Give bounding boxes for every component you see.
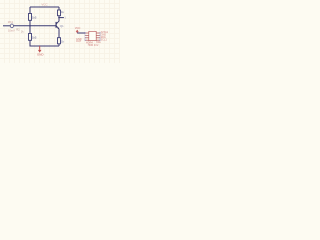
wire top rail	[30, 6, 59, 8]
pin 5 (left)	[85, 37, 88, 39]
pin 6 (right)	[96, 37, 99, 39]
wire R3 to collector with tap junction	[58, 16, 60, 21]
power port GND (arrow down)	[39, 46, 41, 50]
pin 3 (left)	[85, 34, 88, 36]
wire base net (left edge to Q1 base)	[3, 25, 10, 27]
pin 4 (right)	[96, 34, 99, 36]
wire R4 to bottom rail	[58, 44, 60, 46]
pin 8 (right)	[96, 39, 99, 41]
no-ERC crosses left pins	[84, 32, 86, 41]
sheet background	[0, 0, 120, 63]
resistor R3 (upper right box)	[58, 10, 61, 16]
svg-text:MK1: MK1	[8, 20, 14, 24]
resistor R4 (lower right box)	[58, 38, 61, 44]
wire collector tap stub	[59, 17, 64, 19]
junction collector tap	[58, 17, 60, 19]
svg-text:GND: GND	[37, 53, 43, 57]
junction base node	[29, 25, 31, 27]
wire emitter to R4	[58, 29, 60, 38]
wire R1 to junction to R2	[29, 20, 31, 33]
svg-text:Q1: Q1	[60, 24, 64, 28]
wire right vertical (rail to R3)	[58, 7, 60, 10]
svg-text:HDR 4X2: HDR 4X2	[88, 44, 99, 47]
svg-text:OUT: OUT	[76, 40, 82, 43]
svg-text:VCC: VCC	[75, 26, 81, 30]
pin 2 (right)	[96, 32, 99, 34]
wire R2 to bottom rail	[30, 40, 59, 46]
wire VCC to connector pin 1	[77, 32, 85, 34]
no-ERC crosses right pins	[99, 32, 101, 41]
pin 7 (left)	[85, 39, 88, 41]
wire circle to base	[14, 25, 56, 27]
grid	[0, 0, 120, 63]
svg-text:VCC: VCC	[41, 2, 48, 6]
source BT1 (circle on base wire)	[10, 24, 13, 28]
wire left vertical (rail to R1)	[29, 7, 31, 13]
resistor R1 (upper left box)	[29, 14, 32, 21]
svg-text:SCL1: SCL1	[101, 38, 108, 41]
connector J1 body	[89, 31, 96, 40]
svg-text:R2: R2	[16, 27, 20, 31]
resistor R2 (lower left box)	[29, 34, 32, 41]
pin 1 (left)	[85, 32, 88, 34]
transistor Q1 (NPN)	[56, 21, 59, 29]
svg-text:1k5: 1k5	[32, 35, 37, 39]
Q1 emitter arrow	[57, 27, 59, 29]
svg-text:X2A: X2A	[96, 41, 101, 44]
svg-text:10mV: 10mV	[8, 29, 15, 33]
svg-text:1k5: 1k5	[32, 15, 37, 19]
